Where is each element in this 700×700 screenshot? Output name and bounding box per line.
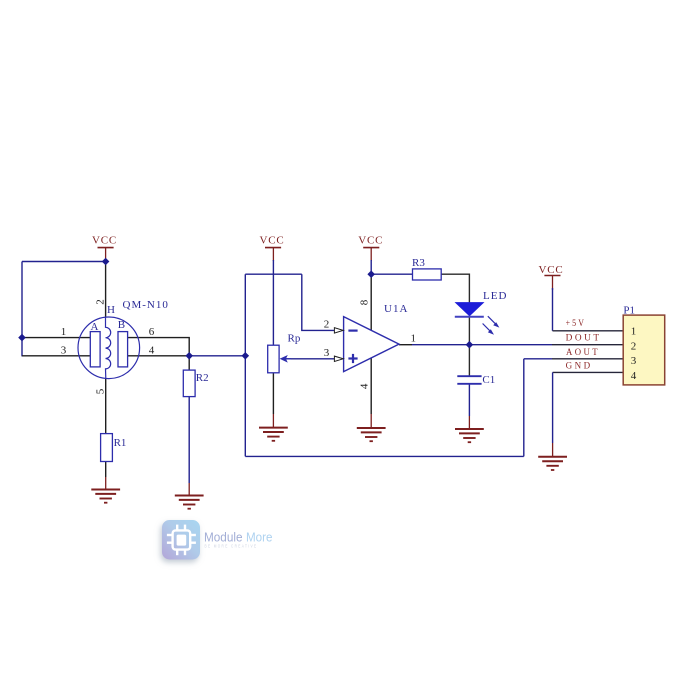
LED D1	[456, 303, 484, 316]
svg-text:H: H	[107, 304, 115, 316]
svg-text:+5V: +5V	[566, 319, 587, 329]
junction dot VCC3 / R3 / pin8	[367, 270, 375, 278]
wire LED cathode to DOUT junction	[468, 317, 470, 345]
wire R2 top stub	[188, 356, 190, 370]
svg-text:3: 3	[631, 355, 637, 367]
wire line4 extension to rail	[189, 355, 245, 357]
svg-text:BE MORE CREATIVE: BE MORE CREATIVE	[205, 544, 258, 549]
op-amp minus sign	[348, 330, 357, 332]
op-amp pin3 input marker	[334, 356, 343, 361]
svg-text:2: 2	[95, 299, 107, 305]
svg-text:4: 4	[631, 370, 637, 382]
svg-text:3: 3	[61, 344, 67, 356]
svg-text:U1A: U1A	[384, 303, 408, 315]
wire op-amp output stub pin1	[399, 344, 412, 346]
wire VCC3 junction to R3 left	[371, 273, 412, 275]
wire VCC1 dot to left rail	[22, 261, 106, 263]
op-amp pin2 input marker	[334, 328, 343, 333]
power VCC4 (connector +5V)	[539, 264, 564, 290]
svg-text:VCC: VCC	[358, 235, 383, 247]
wire mid vertical x=245 (sensor output rail)	[244, 274, 246, 456]
wire sensor pin3	[22, 355, 90, 357]
sensor electrode B plate	[118, 332, 128, 367]
wire AOUT to connector pin3	[524, 358, 552, 360]
svg-text:LED: LED	[483, 290, 507, 302]
svg-text:A: A	[91, 321, 99, 333]
svg-text:6: 6	[149, 326, 155, 338]
potentiometer wiper arrow	[280, 355, 288, 363]
ground under op-amp pin4	[357, 428, 386, 441]
connector P1	[623, 315, 665, 385]
svg-text:C1: C1	[482, 374, 495, 386]
wire R2 bottom to ground	[188, 397, 190, 483]
wire sensor pin5 to R1	[105, 379, 107, 434]
wire sensor pin2 heater from VCC dot	[105, 262, 107, 318]
svg-text:GND: GND	[566, 362, 593, 372]
wire VCC2 down to Rp top	[272, 260, 274, 345]
svg-text:B: B	[118, 319, 125, 331]
svg-text:VCC: VCC	[260, 235, 285, 247]
ground under R1	[91, 490, 120, 503]
power VCC1 (sensor heater supply)	[92, 235, 117, 262]
svg-text:More: More	[246, 529, 273, 544]
gas sensor QM-N10 body circle	[78, 317, 140, 379]
junction dot DOUT / LED / C1	[466, 341, 474, 349]
wire +5V to connector pin1	[553, 330, 624, 332]
svg-text:2: 2	[631, 340, 637, 352]
wire GND from connector pin4	[553, 371, 624, 373]
ground under Rp	[259, 428, 288, 441]
capacitor C1	[457, 375, 481, 377]
svg-text:5: 5	[95, 388, 107, 394]
svg-text:VCC: VCC	[92, 235, 117, 247]
junction dot pin4 / R2	[185, 352, 193, 360]
ground under connector GND	[538, 457, 567, 470]
junction dot left rail / pin1	[18, 334, 26, 342]
resistor R1	[101, 434, 113, 462]
svg-text:3: 3	[324, 347, 330, 359]
sensor heater coil	[106, 317, 111, 378]
svg-text:1: 1	[411, 333, 417, 345]
junction dot at VCC1	[102, 258, 110, 266]
resistor R3	[413, 269, 442, 280]
svg-text:Module: Module	[204, 529, 243, 544]
wire left vertical rail	[21, 262, 23, 357]
wire sensor pin6 to R2 top corner	[128, 338, 190, 356]
ground under R2	[175, 496, 204, 509]
wire VCC3 down to junction	[370, 260, 372, 274]
wire bottom loop horizontal	[245, 455, 524, 457]
wire VCC4 down to +5V line	[552, 288, 554, 331]
svg-text:AOUT: AOUT	[566, 348, 600, 358]
svg-text:DOUT: DOUT	[566, 334, 602, 344]
wire sensor pin4	[128, 355, 190, 357]
svg-text:VCC: VCC	[539, 264, 564, 276]
resistor R2	[183, 370, 195, 397]
wire sensor pin1	[22, 337, 90, 339]
wire DOUT net to connector pin2	[412, 344, 552, 346]
svg-text:4: 4	[149, 344, 155, 356]
ground under C1	[455, 429, 484, 442]
potentiometer Rp	[268, 345, 279, 373]
svg-text:8: 8	[359, 299, 371, 305]
svg-text:P1: P1	[623, 305, 635, 317]
wire Rp bottom to ground	[272, 373, 274, 414]
wire op-amp pin4 to ground	[370, 358, 372, 414]
sensor electrode A plate	[90, 332, 100, 367]
svg-text:4: 4	[359, 383, 371, 389]
junction dot pin4 / rail	[242, 352, 250, 360]
svg-text:1: 1	[631, 326, 637, 338]
wire R1 bottom to ground	[105, 462, 107, 478]
svg-text:R3: R3	[412, 257, 425, 269]
wire down to op-amp pin2	[302, 274, 334, 330]
LED emission arrow upper	[488, 316, 496, 324]
power VCC3 (op-amp supply)	[358, 235, 383, 261]
wire AOUT riser	[523, 359, 525, 457]
op-amp U1A body	[344, 317, 399, 372]
svg-text:R1: R1	[114, 437, 127, 449]
wire op-amp pin8 from VCC junction	[370, 274, 372, 330]
power VCC2 (above Rp)	[260, 235, 285, 261]
wire top horizontal (sensor out to inverting input)	[245, 273, 301, 275]
svg-text:R2: R2	[196, 372, 209, 384]
wire C1 bottom to ground	[468, 384, 470, 416]
watermark logo icon	[162, 520, 200, 560]
svg-text:Rp: Rp	[288, 333, 301, 345]
svg-text:1: 1	[61, 326, 67, 338]
op-amp plus sign	[348, 357, 357, 359]
wire DOUT junction down to C1	[468, 345, 470, 376]
svg-text:QM-N10: QM-N10	[123, 299, 169, 311]
wire Rp wiper to op-amp pin3	[283, 358, 334, 360]
svg-text:2: 2	[324, 319, 330, 331]
LED emission arrow lower	[483, 324, 490, 331]
wire R3 right to LED corner	[441, 274, 469, 302]
